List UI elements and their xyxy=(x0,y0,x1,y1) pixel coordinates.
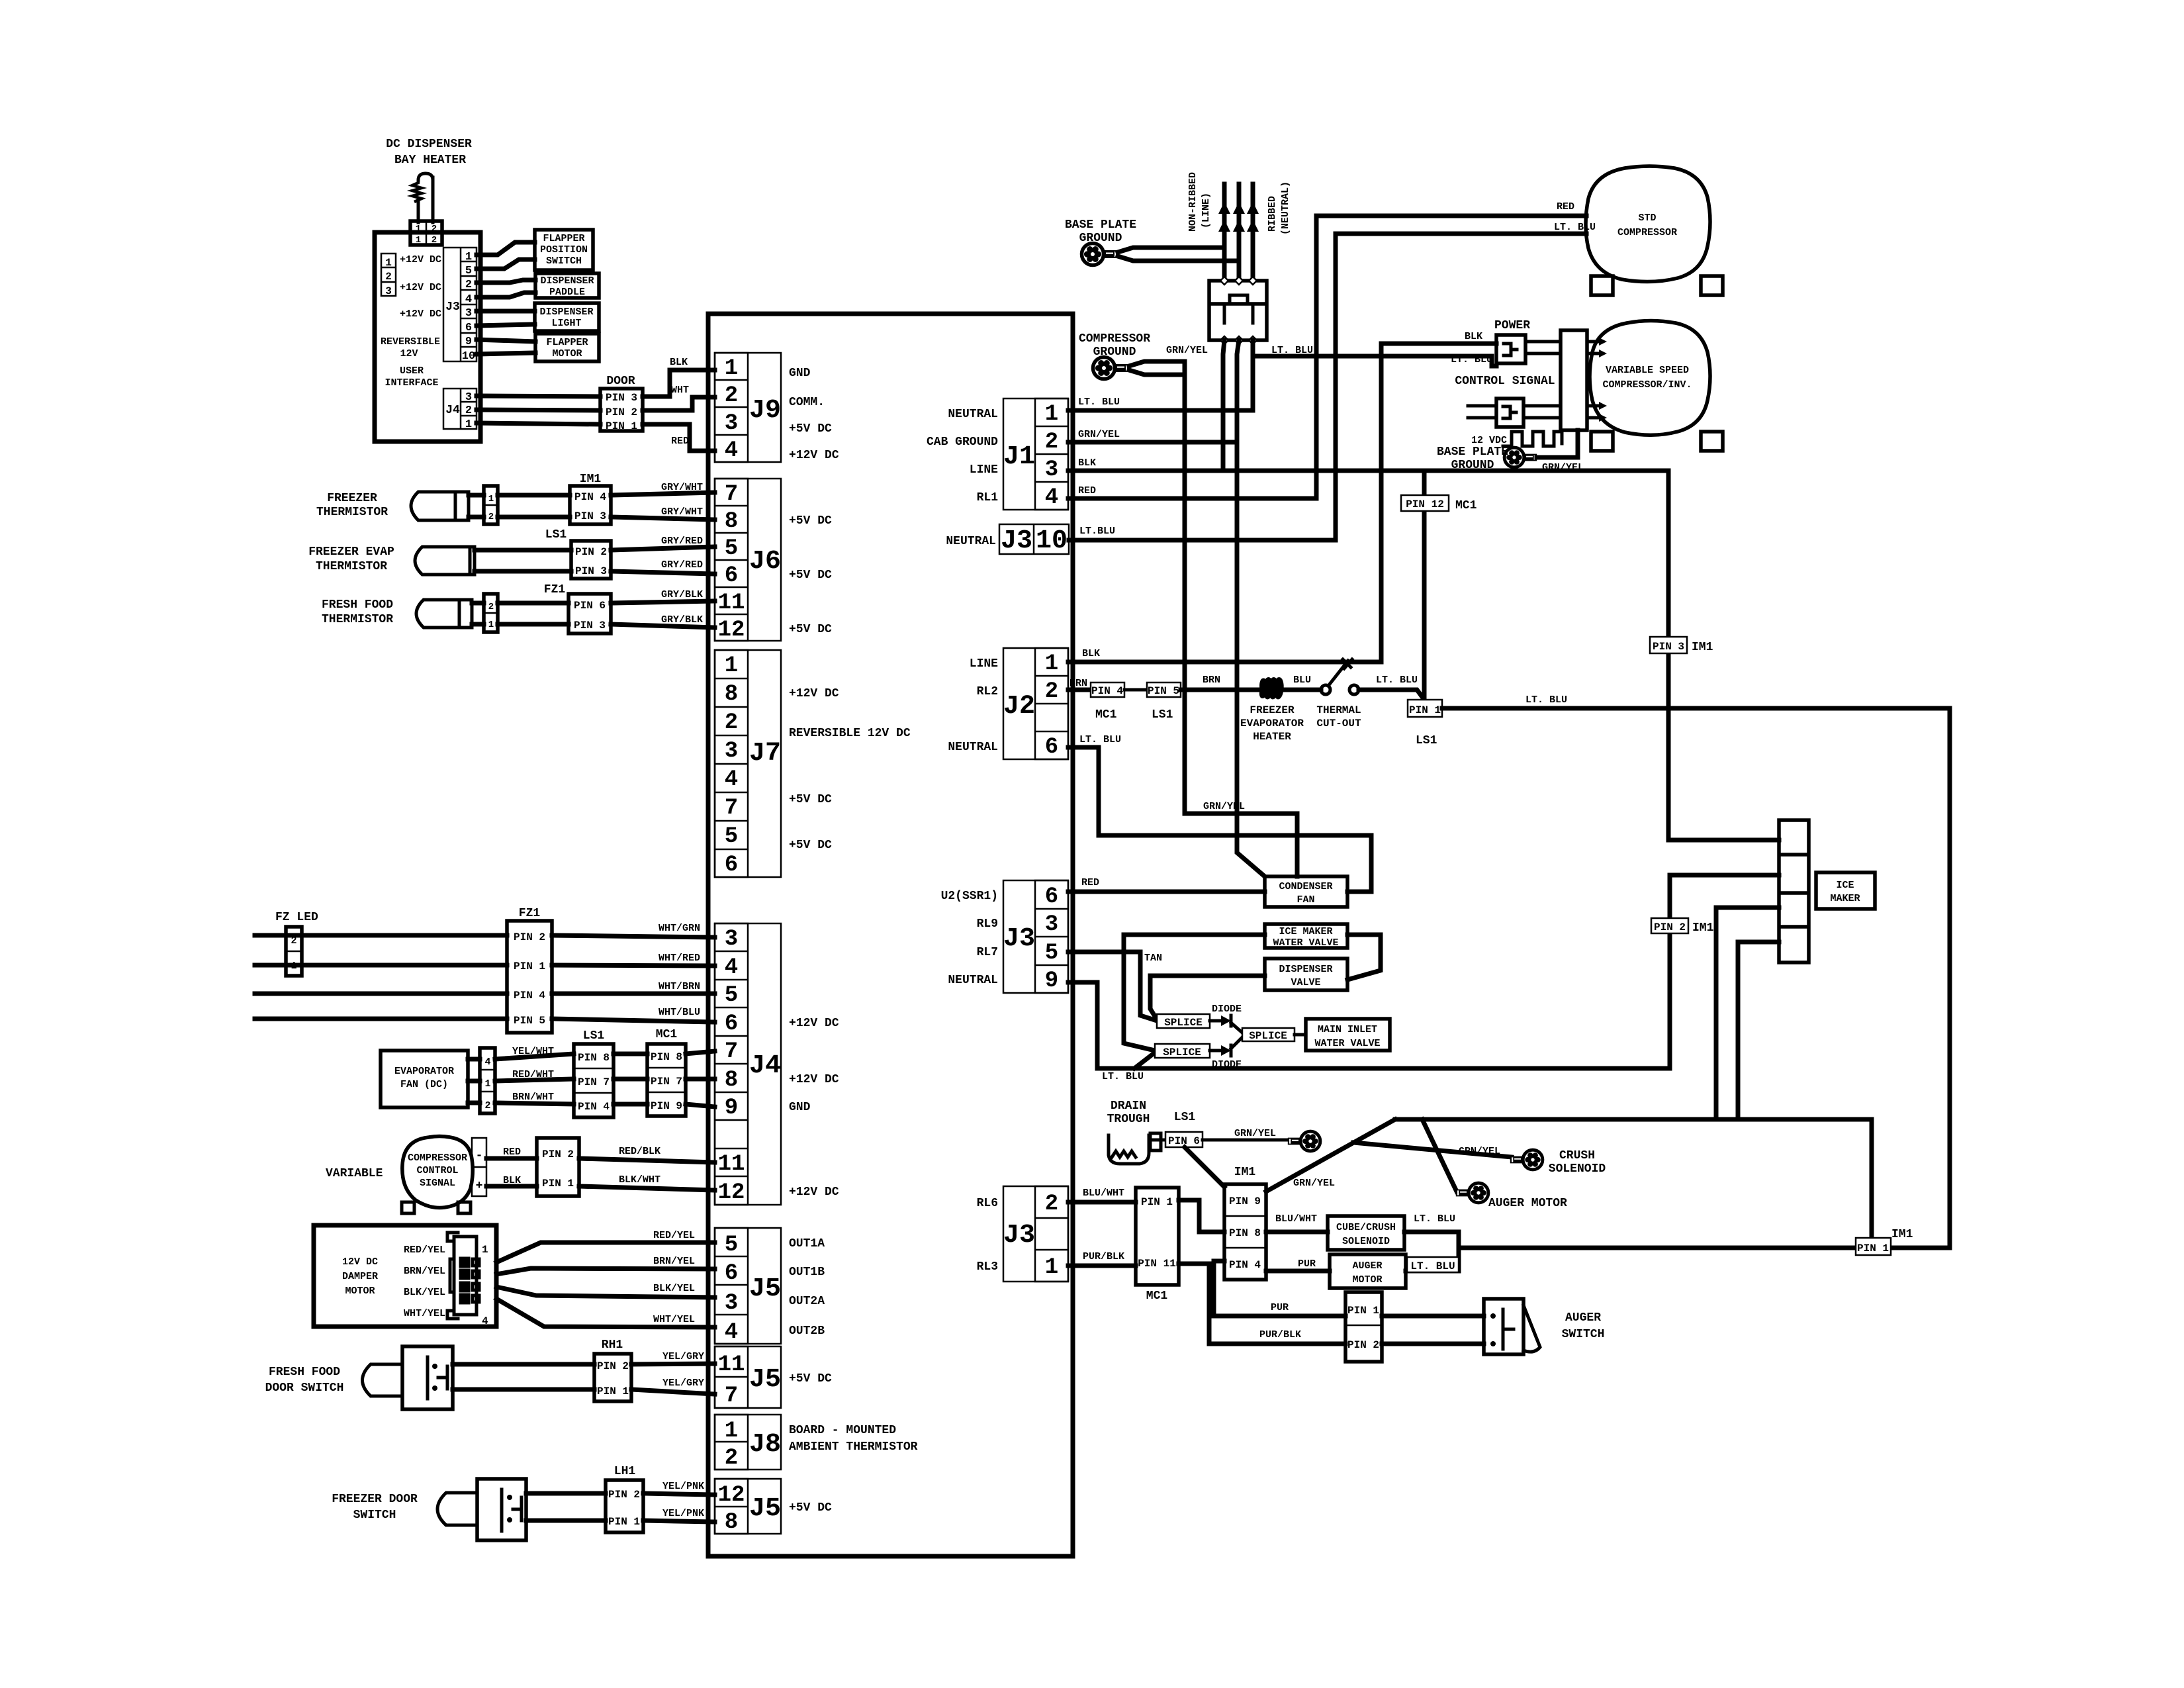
svg-text:LH1: LH1 xyxy=(614,1465,636,1478)
svg-text:EVAPORATOR: EVAPORATOR xyxy=(1240,718,1304,729)
svg-text:LT.BLU: LT.BLU xyxy=(1079,526,1115,537)
svg-text:BRN/YEL: BRN/YEL xyxy=(404,1266,445,1277)
svg-text:COMPRESSOR: COMPRESSOR xyxy=(408,1152,467,1164)
svg-text:J5: J5 xyxy=(749,1274,781,1304)
connector J5 lower xyxy=(715,1479,781,1535)
svg-text:1: 1 xyxy=(725,356,738,381)
svg-text:10: 10 xyxy=(462,350,475,363)
svg-text:MAIN INLET: MAIN INLET xyxy=(1318,1024,1377,1035)
svg-text:PUR: PUR xyxy=(1298,1258,1316,1270)
RED wire door pin1 to J9-4 xyxy=(643,424,715,451)
svg-text:LINE: LINE xyxy=(970,657,998,671)
svg-text:1: 1 xyxy=(488,494,494,504)
PIN 1 label box (LS1) xyxy=(1408,700,1442,717)
diagonal LS1 PIN6 to IM1 PIN9 xyxy=(1185,1147,1224,1187)
svg-text:J8: J8 xyxy=(749,1430,781,1460)
dispenser valve left wire to upper splice xyxy=(1150,976,1265,1019)
power connector to inverter strip xyxy=(1525,340,1561,344)
MC1 connector box (pin8/7/9) xyxy=(647,1044,686,1116)
wires freezer evap to J6 xyxy=(475,548,571,553)
IM1 pin box (pin4/pin3) xyxy=(570,486,611,524)
svg-text:1: 1 xyxy=(465,418,472,431)
svg-text:6: 6 xyxy=(725,1011,738,1037)
svg-text:IM1: IM1 xyxy=(1692,641,1713,654)
wire J3-2 to dispenser paddle xyxy=(477,280,535,283)
svg-text:PIN 1: PIN 1 xyxy=(1409,704,1441,716)
svg-text:THERMISTOR: THERMISTOR xyxy=(316,560,387,573)
svg-text:PIN 6: PIN 6 xyxy=(574,600,606,612)
svg-text:FAN (DC): FAN (DC) xyxy=(400,1079,448,1090)
connector J6 xyxy=(715,479,781,643)
svg-text:ICE MAKER: ICE MAKER xyxy=(1279,926,1332,937)
svg-text:4: 4 xyxy=(482,1315,488,1327)
svg-text:IM1: IM1 xyxy=(580,473,602,486)
svg-text:GRN/YEL: GRN/YEL xyxy=(1234,1128,1276,1139)
drain trough symbol xyxy=(1109,1133,1165,1164)
svg-text:BLU/WHT: BLU/WHT xyxy=(1083,1188,1124,1199)
svg-text:4: 4 xyxy=(725,767,738,792)
wire MC1 PIN11 down to auger PIN2 xyxy=(1179,1264,1345,1344)
svg-text:10: 10 xyxy=(1036,526,1068,556)
svg-text:PIN 2: PIN 2 xyxy=(606,406,637,418)
wire UI J4-3 to door pin3 xyxy=(477,396,600,397)
svg-text:2: 2 xyxy=(432,235,437,246)
LT.BLU rail to PIN1 IM1 xyxy=(1459,1246,1950,1250)
PIN 2 IM1 label box xyxy=(1651,918,1688,933)
wire IM1 PIN4 left down to auger PIN1 xyxy=(1214,1261,1345,1316)
svg-text:BLK: BLK xyxy=(670,357,688,368)
svg-text:VARIABLE: VARIABLE xyxy=(326,1167,383,1180)
svg-text:PIN 1: PIN 1 xyxy=(1347,1305,1379,1317)
svg-text:7: 7 xyxy=(725,482,738,507)
svg-text:WHT/RED: WHT/RED xyxy=(659,953,700,964)
svg-text:4: 4 xyxy=(484,1056,490,1068)
PIN 6 label box xyxy=(1165,1132,1203,1147)
svg-text:7: 7 xyxy=(725,1383,738,1409)
wire J3-5 to flapper position switch xyxy=(477,259,535,269)
svg-text:PIN 4: PIN 4 xyxy=(574,491,606,503)
BLK wire door pin3 to J9-1 xyxy=(643,370,715,397)
plug pin2 vertical down to condenser fan (lt.blu) xyxy=(1237,340,1265,876)
svg-text:RED: RED xyxy=(671,436,689,447)
svg-text:CONDENSER: CONDENSER xyxy=(1279,881,1332,892)
svg-text:LT. BLU: LT. BLU xyxy=(1451,354,1492,365)
svg-text:PIN 3: PIN 3 xyxy=(606,392,637,404)
svg-text:CAB GROUND: CAB GROUND xyxy=(927,436,998,449)
connector J1 xyxy=(1003,399,1068,510)
svg-text:4: 4 xyxy=(725,438,738,463)
heater resistor R (zigzag) xyxy=(412,173,433,222)
svg-text:REVERSIBLE 12V DC: REVERSIBLE 12V DC xyxy=(789,727,911,740)
svg-text:MOTOR: MOTOR xyxy=(1352,1274,1382,1286)
wire J3-3 to dispenser light xyxy=(477,309,535,314)
base plate ground lug (lower) xyxy=(1504,447,1537,467)
wire WHT/BRN row to J4-5 xyxy=(255,992,507,996)
J1-3 BLK rail to PIN3 IM1 vertical xyxy=(1068,469,1668,473)
svg-text:2: 2 xyxy=(488,602,494,612)
svg-text:FLAPPER: FLAPPER xyxy=(543,233,584,244)
svg-text:+5V DC: +5V DC xyxy=(789,839,832,852)
svg-text:RED/YEL: RED/YEL xyxy=(653,1230,695,1241)
drain ground lug xyxy=(1288,1131,1320,1151)
svg-text:11: 11 xyxy=(718,1352,745,1378)
svg-text:3: 3 xyxy=(725,411,738,436)
svg-text:J4: J4 xyxy=(445,404,460,417)
evaporator fan box xyxy=(381,1051,468,1107)
control signal stubs xyxy=(1468,404,1496,408)
svg-text:+5V DC: +5V DC xyxy=(789,1501,832,1515)
svg-text:SWITCH: SWITCH xyxy=(1562,1328,1605,1341)
GRN/YEL wire PIN6 to lug xyxy=(1203,1139,1289,1142)
svg-text:STD: STD xyxy=(1638,212,1656,224)
svg-text:DISPENSER: DISPENSER xyxy=(1279,964,1332,975)
branch from LT.BLU rail to lower splice xyxy=(1134,1053,1155,1068)
wire auger motor to LT.BLU rail xyxy=(1406,1269,1459,1274)
connector J7 xyxy=(715,650,781,878)
svg-text:NEUTRAL: NEUTRAL xyxy=(948,974,998,987)
svg-text:PIN 4: PIN 4 xyxy=(1229,1259,1261,1271)
svg-text:IM1: IM1 xyxy=(1234,1166,1256,1179)
svg-text:+5V DC: +5V DC xyxy=(789,514,832,528)
main control board outline xyxy=(708,314,1073,1556)
svg-text:BRN: BRN xyxy=(1203,675,1220,686)
svg-text:CRUSH: CRUSH xyxy=(1559,1149,1595,1162)
upper SPLICE box xyxy=(1157,1014,1210,1029)
svg-text:PIN 2: PIN 2 xyxy=(597,1360,629,1372)
svg-text:NEUTRAL: NEUTRAL xyxy=(948,408,998,421)
svg-text:BLK: BLK xyxy=(1078,457,1096,469)
svg-text:+5V DC: +5V DC xyxy=(789,1372,832,1385)
svg-text:THERMAL: THERMAL xyxy=(1316,704,1361,716)
wire J3-4 to dispenser paddle xyxy=(477,293,535,297)
switch box xyxy=(402,1346,453,1409)
svg-text:9: 9 xyxy=(1045,968,1058,994)
svg-text:4: 4 xyxy=(725,1320,738,1345)
svg-text:7: 7 xyxy=(725,796,738,821)
svg-text:6: 6 xyxy=(1045,884,1058,910)
svg-text:EVAPORATOR: EVAPORATOR xyxy=(394,1066,454,1077)
svg-text:FAN: FAN xyxy=(1297,894,1314,906)
svg-text:CUT-OUT: CUT-OUT xyxy=(1316,718,1361,729)
damper connector pins xyxy=(447,1233,479,1319)
TAN wire J3-5 to upper splice xyxy=(1068,952,1157,1021)
svg-text:BLK/WHT: BLK/WHT xyxy=(619,1174,660,1186)
wire center splice to main inlet valve xyxy=(1295,1033,1306,1037)
svg-text:-: - xyxy=(476,1149,483,1162)
svg-text:YEL/PNK: YEL/PNK xyxy=(662,1508,704,1519)
PIN 12 label box on line rail xyxy=(1401,495,1449,511)
svg-text:WHT/BLU: WHT/BLU xyxy=(659,1007,700,1018)
wire WHT/BLU row to J4-6 xyxy=(255,1017,507,1021)
wire J3-1 to flapper position switch xyxy=(477,242,535,255)
svg-text:GRY/BLK: GRY/BLK xyxy=(661,589,703,600)
svg-text:LS1: LS1 xyxy=(1174,1111,1196,1124)
svg-text:FREEZER DOOR: FREEZER DOOR xyxy=(332,1493,418,1506)
svg-text:YEL/PNK: YEL/PNK xyxy=(662,1481,704,1492)
PIN 3 IM1 label box xyxy=(1650,637,1687,653)
svg-text:TROUGH: TROUGH xyxy=(1107,1113,1150,1126)
svg-text:FLAPPER: FLAPPER xyxy=(546,337,588,348)
svg-text:6: 6 xyxy=(725,1261,738,1286)
wire ice maker valve right loop to dispenser valve xyxy=(1347,935,1381,980)
wire MC1 PIN1 to IM1 PIN8 xyxy=(1179,1200,1224,1232)
wire heater to thermal cutout xyxy=(1282,688,1321,692)
svg-text:INTERFACE: INTERFACE xyxy=(385,377,438,389)
svg-text:DISPENSER: DISPENSER xyxy=(539,306,593,318)
svg-text:PIN 4: PIN 4 xyxy=(1091,685,1123,697)
svg-text:4: 4 xyxy=(1045,485,1058,510)
svg-text:2: 2 xyxy=(1045,430,1058,455)
connector J3 single (row 10) xyxy=(999,524,1069,556)
svg-text:8: 8 xyxy=(725,682,738,707)
svg-text:12: 12 xyxy=(718,1180,745,1205)
svg-text:MAKER: MAKER xyxy=(1830,893,1860,904)
lt.blu rail from plug neutral to power connector xyxy=(1253,356,1496,366)
auger switch pin box (PIN1/PIN2) xyxy=(1345,1292,1382,1362)
variable speed compressor blob xyxy=(1590,321,1710,436)
wire from base plate ground lug up to strip xyxy=(1537,430,1578,457)
svg-text:DOOR SWITCH: DOOR SWITCH xyxy=(265,1382,344,1395)
svg-text:GRN/YEL: GRN/YEL xyxy=(1542,462,1584,473)
svg-text:RED/BLK: RED/BLK xyxy=(619,1146,660,1157)
svg-text:RL2: RL2 xyxy=(977,685,998,698)
neutral drop from plug pin3 to J1-1 xyxy=(1068,340,1253,410)
GRN/YEL ground rail to PIN1 IM1 drop xyxy=(1395,1119,1872,1243)
svg-text:BLK: BLK xyxy=(1082,648,1100,659)
wire cube/crush to LT.BLU rail xyxy=(1404,1232,1459,1270)
svg-text:PIN 8: PIN 8 xyxy=(651,1051,682,1063)
svg-text:PIN 7: PIN 7 xyxy=(578,1076,610,1088)
svg-text:2: 2 xyxy=(725,383,738,408)
svg-text:PIN 11: PIN 11 xyxy=(1138,1258,1176,1270)
svg-text:YEL/GRY: YEL/GRY xyxy=(662,1378,704,1389)
svg-text:THERMISTOR: THERMISTOR xyxy=(322,613,393,626)
ice maker label box xyxy=(1816,872,1875,909)
svg-text:WHT/YEL: WHT/YEL xyxy=(404,1308,445,1319)
svg-text:TAN: TAN xyxy=(1144,953,1162,964)
svg-text:PIN 3: PIN 3 xyxy=(574,510,606,522)
auger switch xyxy=(1484,1299,1540,1354)
svg-text:PIN 2: PIN 2 xyxy=(575,546,607,558)
connector J2 xyxy=(1003,648,1068,760)
arrows strip to blob xyxy=(1587,338,1607,422)
svg-text:BOARD - MOUNTED: BOARD - MOUNTED xyxy=(789,1424,896,1437)
svg-text:POWER: POWER xyxy=(1494,319,1530,332)
svg-text:+12V DC: +12V DC xyxy=(789,1073,839,1086)
freezer thermistor connector 1/2 xyxy=(484,486,498,524)
vertical from BLK rail through PIN3 IM1 to ice maker cell1 xyxy=(1668,471,1779,840)
svg-text:SPLICE: SPLICE xyxy=(1164,1017,1203,1029)
svg-text:PIN 1: PIN 1 xyxy=(542,1178,574,1190)
svg-text:VARIABLE SPEED: VARIABLE SPEED xyxy=(1606,365,1689,376)
svg-text:5: 5 xyxy=(725,536,738,561)
svg-text:LT. BLU: LT. BLU xyxy=(1079,734,1121,745)
svg-text:LT. BLU: LT. BLU xyxy=(1102,1071,1144,1082)
wires auger pins to switch xyxy=(1382,1314,1484,1319)
svg-text:REVERSIBLE: REVERSIBLE xyxy=(381,336,440,348)
svg-text:PUR: PUR xyxy=(1271,1302,1289,1313)
svg-text:11: 11 xyxy=(718,1152,745,1177)
svg-text:FREEZER EVAP: FREEZER EVAP xyxy=(308,545,394,559)
svg-text:LS1: LS1 xyxy=(1152,708,1173,722)
svg-text:IM1: IM1 xyxy=(1891,1228,1913,1241)
svg-text:PIN 1: PIN 1 xyxy=(1857,1243,1889,1254)
svg-text:LS1: LS1 xyxy=(1416,734,1437,747)
svg-text:+5V DC: +5V DC xyxy=(789,569,832,582)
svg-text:1: 1 xyxy=(482,1244,488,1256)
svg-text:1: 1 xyxy=(1045,651,1058,677)
heater connector 2x2 xyxy=(410,221,442,246)
svg-text:PIN 9: PIN 9 xyxy=(1229,1196,1261,1207)
svg-text:BRN: BRN xyxy=(1069,678,1087,689)
right tall rail down to PIN1 IM1 xyxy=(1948,708,1952,1248)
svg-text:9: 9 xyxy=(725,1096,738,1121)
svg-text:1: 1 xyxy=(465,251,472,263)
svg-text:LS1: LS1 xyxy=(583,1029,605,1043)
wire IM1 PIN4 right to auger motor box xyxy=(1266,1269,1330,1274)
wire ice cell3 from GRN/YEL rail xyxy=(1716,908,1779,1119)
svg-text:3: 3 xyxy=(725,1291,738,1316)
wires evap fan chain to J4 7/8/9 xyxy=(495,1054,574,1059)
svg-text:MC1: MC1 xyxy=(656,1028,678,1041)
ice maker valve left wire down to lower splice xyxy=(1124,935,1265,1051)
svg-text:RED/WHT: RED/WHT xyxy=(512,1069,554,1080)
svg-text:6: 6 xyxy=(725,853,738,878)
svg-text:J3: J3 xyxy=(1003,1221,1035,1250)
svg-text:GROUND: GROUND xyxy=(1451,459,1494,472)
svg-text:LT. BLU: LT. BLU xyxy=(1078,397,1120,408)
svg-text:GRY/RED: GRY/RED xyxy=(661,559,703,571)
svg-text:GRN/YEL: GRN/YEL xyxy=(1166,345,1208,356)
svg-text:BLK: BLK xyxy=(1465,331,1482,342)
svg-text:RL9: RL9 xyxy=(977,917,998,931)
svg-text:SPLICE: SPLICE xyxy=(1249,1030,1287,1042)
svg-text:RH1: RH1 xyxy=(602,1338,623,1352)
MC1 connector (pin1/pin11) xyxy=(1136,1188,1179,1285)
-/+ connector xyxy=(472,1138,486,1196)
connector J8 xyxy=(715,1415,781,1471)
neutral LT.BLU rail from J3-9 to ice maker cell2 xyxy=(1068,875,1779,1068)
svg-text:PIN 8: PIN 8 xyxy=(1229,1227,1261,1239)
svg-text:J2: J2 xyxy=(1003,692,1035,722)
svg-text:+5V DC: +5V DC xyxy=(789,422,832,436)
svg-text:BAY HEATER: BAY HEATER xyxy=(394,154,466,167)
wires fresh food switch to J5 11/7 xyxy=(453,1362,594,1367)
svg-text:12: 12 xyxy=(718,618,745,643)
svg-text:(NEUTRAL): (NEUTRAL) xyxy=(1280,181,1291,235)
svg-text:ICE: ICE xyxy=(1836,880,1854,891)
svg-text:BLK/YEL: BLK/YEL xyxy=(404,1287,445,1298)
svg-text:RED: RED xyxy=(503,1147,521,1158)
svg-text:LT. BLU: LT. BLU xyxy=(1414,1213,1455,1225)
svg-text:BLU: BLU xyxy=(1293,675,1311,686)
svg-text:12V: 12V xyxy=(400,348,418,359)
svg-text:J3: J3 xyxy=(1001,526,1032,556)
wire PIN4 to PIN5 xyxy=(1124,688,1147,692)
svg-text:PADDLE: PADDLE xyxy=(549,287,585,298)
svg-text:BASE PLATE: BASE PLATE xyxy=(1437,445,1508,459)
J3-10 LT.BLU wire to STD compressor xyxy=(1069,234,1586,540)
svg-text:J5: J5 xyxy=(749,1494,781,1524)
J3 strip on UI xyxy=(443,248,477,363)
svg-text:12V DC: 12V DC xyxy=(342,1256,378,1268)
svg-text:DIODE: DIODE xyxy=(1212,1059,1242,1070)
svg-text:WATER VALVE: WATER VALVE xyxy=(1314,1038,1380,1049)
wire FZ LED pin2 row to J4-3 xyxy=(255,933,507,938)
STD compressor feet xyxy=(1591,276,1613,295)
svg-text:DOOR: DOOR xyxy=(606,375,635,388)
svg-text:FRESH FOOD: FRESH FOOD xyxy=(322,598,393,612)
svg-text:LT. BLU: LT. BLU xyxy=(1410,1260,1455,1272)
svg-text:LT. BLU: LT. BLU xyxy=(1376,675,1418,686)
J1-2 GRN/YEL wire up to plug xyxy=(1068,440,1237,445)
svg-text:FREEZER: FREEZER xyxy=(327,492,377,505)
svg-text:LT. BLU: LT. BLU xyxy=(1554,222,1596,233)
svg-text:MC1: MC1 xyxy=(1146,1289,1168,1303)
svg-text:5: 5 xyxy=(725,824,738,849)
switch actuator bulb xyxy=(363,1364,403,1396)
svg-text:PIN 12: PIN 12 xyxy=(1406,498,1444,510)
svg-text:1: 1 xyxy=(725,1419,738,1444)
svg-text:2: 2 xyxy=(1045,1192,1058,1217)
variable speed feet xyxy=(1591,432,1613,451)
svg-text:THERMISTOR: THERMISTOR xyxy=(316,506,388,519)
svg-text:PIN 4: PIN 4 xyxy=(514,990,545,1002)
svg-text:12 VDC: 12 VDC xyxy=(1471,435,1507,446)
12V DC damper motor box xyxy=(314,1225,496,1327)
svg-text:5: 5 xyxy=(1045,941,1058,966)
svg-text:9: 9 xyxy=(465,336,472,348)
svg-text:WHT/BRN: WHT/BRN xyxy=(659,981,700,992)
svg-text:GROUND: GROUND xyxy=(1079,232,1122,245)
ice maker water valve box xyxy=(1265,924,1347,948)
svg-text:11: 11 xyxy=(718,590,745,616)
svg-text:FZ1: FZ1 xyxy=(544,583,566,596)
svg-text:LS1: LS1 xyxy=(545,528,567,541)
svg-text:BLK/YEL: BLK/YEL xyxy=(653,1283,695,1294)
svg-text:BRN/YEL: BRN/YEL xyxy=(653,1256,695,1267)
svg-text:1: 1 xyxy=(1045,1255,1058,1280)
GRN/YEL diagonal from IM1 PIN9 to ground rail xyxy=(1266,1119,1395,1192)
FZ1 connector box (pin2/1/4/5) xyxy=(507,921,552,1033)
J3-2 BLU/WHT wire to MC1 PIN1 xyxy=(1068,1200,1136,1205)
evap fan connector strip 4/1/2 xyxy=(480,1048,495,1113)
svg-text:5: 5 xyxy=(725,983,738,1008)
switch actuator bulb xyxy=(437,1493,477,1525)
svg-text:1: 1 xyxy=(416,235,421,246)
thermal cut-out xyxy=(1321,659,1359,694)
svg-text:J5: J5 xyxy=(749,1365,781,1395)
connector J3 quad (6/3/5/9) xyxy=(1003,880,1068,994)
svg-text:2: 2 xyxy=(488,512,494,522)
svg-text:HEATER: HEATER xyxy=(1253,731,1291,743)
LS1 pin box (pin2/pin3) xyxy=(571,541,611,579)
svg-text:U2(SSR1): U2(SSR1) xyxy=(941,890,998,903)
svg-text:RED: RED xyxy=(1078,485,1096,496)
freezer thermistor bulb xyxy=(411,492,469,520)
svg-text:6: 6 xyxy=(725,563,738,588)
svg-text:6: 6 xyxy=(1045,735,1058,760)
svg-text:RL3: RL3 xyxy=(977,1260,998,1274)
svg-text:+12V DC: +12V DC xyxy=(400,308,441,320)
J2-6 NEUTRAL wire to condenser fan right xyxy=(1068,747,1371,892)
svg-text:RIBBED: RIBBED xyxy=(1267,196,1278,232)
RH1 pin box xyxy=(594,1354,631,1401)
base plate ground lug (top) xyxy=(1082,244,1118,265)
svg-text:PIN 9: PIN 9 xyxy=(651,1100,682,1112)
svg-text:RL6: RL6 xyxy=(977,1197,998,1210)
wires freezer thermistor to J6 xyxy=(469,493,484,498)
